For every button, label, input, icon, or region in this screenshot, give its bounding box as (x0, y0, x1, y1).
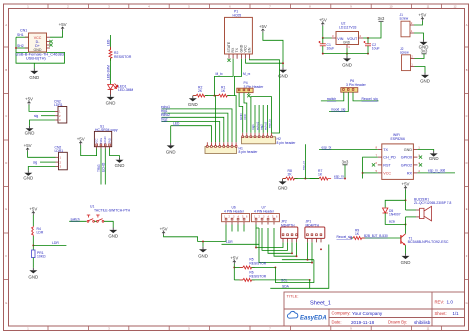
svg-text:+5V: +5V (25, 97, 33, 102)
svg-text:SH1: SH1 (17, 33, 24, 37)
svg-text:3 Pin Header: 3 Pin Header (346, 83, 367, 87)
wire TX riser bt_rx (234, 59, 241, 96)
svg-text:Drawn By:: Drawn By: (388, 320, 407, 325)
svg-text:GND: GND (404, 148, 413, 152)
resistor R2 (109, 47, 112, 61)
wire switch input (69, 220, 86, 222)
title block (284, 292, 465, 326)
svg-text:Your Company: Your Company (352, 311, 383, 316)
wire shield loop CN1 (16, 37, 65, 63)
svg-text:ZL-QCY12065-2305P 7.8: ZL-QCY12065-2305P 7.8 (414, 201, 451, 205)
connector CN2 body (58, 107, 67, 124)
junction node riser (304, 178, 306, 180)
wire +5V to J1 pin2 (414, 21, 422, 25)
resistor R1 1K (215, 94, 230, 97)
wire RX net (417, 172, 455, 174)
wire GND to R2 (193, 95, 196, 97)
svg-text:RST: RST (383, 163, 391, 167)
wire TX net (319, 149, 378, 151)
ground (CN2) (25, 126, 35, 136)
junction node rail left (322, 53, 324, 55)
pins CN2 (55, 111, 58, 120)
svg-text:HC05: HC05 (233, 13, 242, 17)
svg-text:GPIO0: GPIO0 (401, 156, 412, 160)
wire C1 branch (322, 38, 324, 44)
svg-text:Date:: Date: (332, 320, 342, 325)
wire LDR to U7 (222, 228, 260, 244)
svg-text:LED-3MM: LED-3MM (107, 65, 111, 80)
wire JP1 pin1 drop to SCL row (307, 242, 309, 259)
svg-text:MD4PTH: MD4PTH (306, 223, 320, 227)
svg-text:M_tx: M_tx (216, 72, 223, 76)
pins S1 below (97, 147, 110, 149)
transistor T1 BC548B (401, 234, 406, 246)
wire R9 left stub (351, 237, 353, 239)
wire GND tap CN1 (33, 63, 35, 68)
pin pads P4 (238, 89, 249, 91)
wire +5V to CN3 pin1 (28, 152, 56, 158)
svg-text:GND: GND (198, 253, 208, 258)
pin numbers J2 (411, 55, 413, 67)
wire +5V to R4 (32, 215, 34, 226)
regulator U2 body (336, 32, 359, 45)
svg-text:TRIG: TRIG (97, 164, 101, 172)
wire +5V loop to VCC P1 (246, 33, 283, 64)
svg-text:10KΩ: 10KΩ (37, 254, 46, 258)
svg-text:LDR: LDR (226, 240, 233, 244)
connector JP2 MD4PTH body (281, 227, 298, 238)
svg-text:trig2: trig2 (161, 117, 168, 121)
power flag +5V (CN1) (59, 22, 67, 31)
frame row ticks right (465, 47, 469, 280)
svg-text:BC548B-NPN-TO92-ESC: BC548B-NPN-TO92-ESC (408, 240, 449, 244)
svg-text:esp_rx_ddd: esp_rx_ddd (428, 169, 445, 173)
svg-text:2K: 2K (198, 89, 203, 93)
junction node SCL (274, 266, 276, 268)
pins U6 below (226, 222, 244, 225)
svg-text:HC-SR04 copy: HC-SR04 copy (95, 128, 118, 132)
svg-text:GND: GND (429, 156, 439, 161)
wire +5V rail to U6 (164, 225, 226, 242)
svg-text:LDR: LDR (37, 231, 44, 235)
wire sig CN3 pin2 (40, 161, 56, 163)
capacitor C1 (319, 41, 326, 46)
svg-text:RESISTOR: RESISTOR (114, 55, 132, 59)
svg-text:1N4007: 1N4007 (389, 213, 401, 217)
power flag +5V (CN2) (25, 97, 33, 106)
svg-text:esp_rx: esp_rx (302, 160, 306, 170)
ground (ESP8266) (429, 151, 439, 161)
ground (PR1) (28, 268, 38, 280)
svg-text:+5V: +5V (259, 24, 267, 29)
frame row ticks left (4, 47, 9, 280)
svg-text:3v3: 3v3 (421, 49, 428, 54)
svg-text:D: D (466, 161, 468, 165)
power flag +5V (buzzer) (402, 182, 410, 191)
svg-text:BZB: BZB (389, 220, 395, 224)
svg-text:LDR: LDR (52, 241, 59, 245)
pin nc mark STATE (227, 59, 230, 62)
svg-text:RESISTOR: RESISTOR (249, 274, 266, 278)
junction node weave d (320, 248, 322, 250)
junction node R2/R1 (214, 95, 216, 97)
svg-text:LDR1: LDR1 (54, 103, 63, 107)
pin pads H2 (242, 136, 273, 138)
power flag +5V (U2) (319, 18, 327, 27)
wire diode branch bottom (385, 213, 405, 224)
svg-text:shibilisb: shibilisb (414, 320, 431, 325)
svg-text:GND: GND (188, 102, 198, 107)
wire +5V to VIN (323, 26, 332, 38)
wire GND pin U2 (346, 48, 348, 56)
junction node VIN (322, 37, 324, 39)
ground (CN1) (29, 69, 39, 81)
svg-text:8 pin header: 8 pin header (277, 141, 297, 145)
wire SDA line (270, 280, 309, 288)
svg-text:EasyEDA: EasyEDA (300, 316, 327, 322)
wire P4 pin2 to H2 pin2 (244, 93, 247, 133)
svg-text:esp_rx: esp_rx (334, 174, 344, 178)
wire diode branch top (385, 200, 405, 207)
wire S1 ECHO down (104, 149, 106, 185)
svg-text:esp_tx: esp_tx (268, 119, 272, 128)
svg-text:screw: screw (400, 16, 409, 20)
svg-text:GND: GND (166, 149, 176, 154)
svg-text:2019-11-18: 2019-11-18 (351, 320, 375, 325)
svg-text:sig: sig (34, 114, 38, 118)
module ESP8266 body (382, 144, 414, 180)
wire buzzer pin top (406, 209, 417, 211)
wire H2 pin3 horizontal link (251, 97, 272, 133)
pins J1 (410, 25, 414, 33)
resistor R9 1K (350, 237, 365, 240)
wire P6 pin3 Reccel_sig (353, 92, 379, 101)
svg-text:GND: GND (107, 138, 111, 144)
wire +5V to VCC pin of CN1 (50, 31, 63, 38)
header H2 body (242, 137, 276, 144)
wire buzzer minus to collector segment (405, 217, 407, 234)
svg-text:3v3: 3v3 (342, 160, 349, 165)
wire S1 TRIG down (100, 149, 102, 185)
wire P4 pin1 to H2 pin1 (239, 93, 243, 133)
ground (R8) (278, 179, 288, 191)
wire trig2 (162, 122, 220, 143)
svg-text:GND: GND (420, 79, 430, 84)
ground (S1) (115, 157, 125, 168)
sensor S1 body (94, 131, 111, 146)
wire SH2 to box (16, 47, 29, 49)
ground (P1) (278, 67, 288, 78)
power flag +5V (I2C) (230, 256, 238, 265)
wire sig CN2 pin2 (41, 115, 55, 117)
wire SCL line (275, 260, 314, 283)
svg-text:LED-3MM: LED-3MM (118, 88, 133, 92)
svg-text:LED: LED (107, 39, 111, 46)
wire U6 pin2 dangle (231, 225, 233, 232)
LED LED1 (108, 84, 118, 90)
svg-text:Company:: Company: (332, 311, 351, 316)
svg-text:+5V: +5V (418, 13, 426, 18)
wire C1 to bottom rail (322, 46, 324, 54)
svg-text:E: E (466, 207, 468, 211)
wire base chain (362, 237, 401, 239)
ground (fan) (166, 143, 176, 154)
resistor PR1 (box style) (32, 250, 35, 258)
wire +5V to CN2 pin1 (29, 105, 55, 111)
power flag 3v3 (U2) (378, 16, 385, 21)
svg-text:GND: GND (343, 41, 351, 45)
svg-text:Reccel_sig: Reccel_sig (362, 97, 378, 101)
pins U7 below (256, 222, 274, 225)
svg-text:VCC: VCC (383, 171, 391, 175)
frame column ticks top (48, 4, 442, 9)
capacitor C2 (364, 41, 372, 46)
wire H2 pin6 riser (262, 105, 264, 133)
resistor R8 2K (282, 177, 297, 180)
wire LDR tap right (33, 244, 66, 246)
wire echo1 (162, 109, 232, 142)
pin numbers CN3 (60, 156, 62, 169)
pins J2 (411, 59, 415, 67)
junction node weave c (291, 252, 293, 254)
svg-text:C: C (466, 114, 468, 118)
junction node buzzer top (405, 199, 407, 201)
svg-text:CH_PD: CH_PD (383, 156, 396, 160)
wire GND drop (U6 rail) (202, 241, 204, 246)
pin numbers H1 (207, 144, 238, 147)
svg-text:B2B_BJT_B-530: B2B_BJT_B-530 (364, 234, 388, 238)
frame column ticks bottom (48, 326, 442, 331)
pins JP2 below (283, 238, 297, 242)
svg-text:esp_tx: esp_tx (322, 145, 332, 149)
junction node weave b (296, 255, 298, 257)
svg-text:1K: 1K (318, 173, 323, 177)
module P1 body (225, 17, 253, 54)
wire buzzer pin bottom (406, 216, 417, 218)
svg-text:+5V: +5V (160, 227, 168, 232)
resistor R4 LDR (32, 226, 34, 236)
svg-text:+5V: +5V (59, 22, 67, 27)
svg-text:E: E (5, 207, 7, 211)
svg-text:GND: GND (25, 131, 35, 136)
wire to R5 (234, 266, 243, 268)
ground (R2 row) (188, 96, 198, 107)
pin numbers U2 (332, 34, 362, 49)
svg-text:GND: GND (23, 175, 33, 180)
svg-text:screw: screw (400, 50, 409, 54)
power flag +5V (J1) (418, 13, 426, 22)
svg-text:ESP8266: ESP8266 (391, 137, 405, 141)
svg-text:+5V: +5V (319, 18, 327, 23)
svg-text:Reccel_sig: Reccel_sig (337, 235, 353, 239)
pin name columns S1 (95, 137, 112, 145)
svg-text:GND: GND (342, 63, 352, 68)
ground (LED1) (106, 95, 116, 106)
junction node LDR/U7p1 (255, 247, 257, 249)
svg-text:GPIO2: GPIO2 (401, 163, 412, 167)
terminal J2 body (402, 55, 411, 71)
wire echo2 (162, 117, 224, 142)
wire P6 pin1 switch (321, 92, 344, 101)
wire net to resistor R2 (110, 35, 112, 50)
svg-text:3v3: 3v3 (378, 16, 385, 21)
svg-text:LD1117V33: LD1117V33 (339, 25, 357, 29)
title block texts (287, 294, 460, 325)
svg-text:1.0: 1.0 (447, 300, 454, 305)
pin numbers ESP8266 (375, 146, 420, 173)
pin names ESP8266 right (401, 148, 413, 175)
power flag +5V (U6 rail) (160, 227, 168, 236)
pin nc mark RST (372, 163, 375, 166)
svg-text:C: C (5, 114, 7, 118)
pin numbers J1 (411, 21, 413, 33)
pin P4 pin3 stub (248, 93, 250, 95)
wire junction drop to H1 pin3 (215, 95, 216, 97)
svg-text:2K: 2K (288, 173, 293, 177)
wire R1 chain drop to H1 pin8 (234, 96, 236, 143)
svg-text:TX: TX (235, 47, 239, 52)
svg-text:mood_sig: mood_sig (331, 108, 345, 112)
wire JP2 pin2 to U7 pin2 (262, 228, 288, 250)
svg-text:4 PIN Header: 4 PIN Header (254, 209, 275, 213)
svg-text:1/1: 1/1 (453, 311, 460, 316)
svg-text:GND: GND (108, 234, 118, 239)
buzzer BUZZER1 speaker symbol (420, 206, 432, 221)
junction node VCC rail (282, 62, 284, 64)
wire LED to H1 (171, 126, 212, 143)
wire CH_PD (363, 157, 378, 178)
wire R5 to SCL riser (252, 266, 276, 268)
junction node U6 rail (202, 240, 204, 242)
svg-text:G: G (5, 301, 7, 305)
wire H2 pin7 riser (266, 105, 268, 133)
wire R2 to LED1 (110, 58, 112, 84)
pin nc mark GPIO2 (419, 163, 422, 166)
ground (U2) (342, 56, 352, 68)
connector CN3 body (59, 152, 68, 170)
wire S1 GND to ground (110, 149, 120, 158)
pins CN3 (56, 157, 59, 166)
wire GND to R8 (283, 178, 286, 180)
svg-text:CN1: CN1 (20, 29, 27, 33)
wire +5V down to junction (405, 190, 407, 210)
svg-text:TX: TX (383, 148, 388, 152)
svg-text:ECHO: ECHO (103, 137, 107, 145)
junction node 3v3/rail (344, 178, 346, 180)
svg-text:VCC: VCC (95, 138, 99, 144)
svg-text:SDA: SDA (282, 284, 290, 288)
pin pads JP2 (282, 234, 297, 236)
wire H2 pin5 riser (258, 105, 260, 133)
svg-text:10uF: 10uF (372, 47, 380, 51)
svg-text:4 PIN Header: 4 PIN Header (224, 209, 245, 213)
connector JP1 MD4PTH body (305, 227, 325, 238)
junction node rail right (367, 53, 369, 55)
power flag 3v3 (J2) (421, 49, 428, 54)
ground (U6 rail) (198, 247, 208, 258)
svg-text:GND: GND (115, 163, 125, 168)
wire riser up (net) (304, 144, 306, 178)
wire JP1 pin2 drop to LDR riser (259, 242, 312, 262)
wire emitter to ground (405, 245, 407, 253)
svg-text:1K: 1K (221, 89, 226, 93)
wire U6 pin3 dangle (237, 225, 239, 232)
svg-text:B: B (5, 68, 7, 72)
ground (J2) (420, 73, 430, 84)
svg-text:Sheet:: Sheet: (435, 311, 447, 316)
EasyEDA logo (287, 311, 326, 321)
junction node SDA (309, 279, 311, 281)
resistor R2 2K (193, 94, 208, 97)
pin nc mark GPIO0 (419, 156, 422, 159)
pin pads H1 (206, 146, 237, 148)
switch U1 symbol (87, 215, 104, 222)
svg-text:TITLE:: TITLE: (287, 294, 299, 299)
svg-text:SH2: SH2 (17, 44, 24, 48)
junction node VOUT/C2 (367, 37, 369, 39)
svg-text:switch: switch (71, 217, 80, 221)
wire C2 branch (367, 38, 369, 44)
ground (U1) (108, 228, 118, 239)
wire SDA line right (310, 245, 329, 289)
header P4 body (237, 88, 253, 92)
wire +5V drop to R5/R6 (233, 264, 235, 280)
wire 3v3 to J2 pin2 (415, 54, 425, 59)
wire R2 to R1 (205, 95, 219, 97)
pins JP1 below (308, 238, 322, 242)
svg-text:A: A (466, 23, 468, 27)
wire CN3 pin3 to ground (28, 167, 55, 171)
wire switch to ground (104, 221, 113, 227)
resistor R7 1K (316, 177, 331, 180)
svg-text:A: A (5, 23, 7, 27)
svg-text:MD4PTH: MD4PTH (281, 223, 295, 227)
power flag +5V (CN3) (24, 143, 32, 152)
svg-text:B: B (466, 68, 468, 72)
wire 3v3 drop (344, 165, 346, 179)
wire +5V to S1 pin1 (81, 145, 97, 156)
header H1 body (205, 147, 237, 154)
terminal J1 body (401, 21, 410, 37)
wire R1 right (227, 95, 234, 97)
svg-text:EN: EN (248, 47, 252, 52)
diode D5 1N4007 (383, 208, 388, 213)
power flag +5V (R4) (29, 207, 37, 216)
pins buzzer (416, 210, 420, 217)
wire R7 to 3v3 drop (328, 178, 363, 180)
ground (J1) (419, 40, 429, 50)
wire GND pin to ground (417, 150, 433, 152)
svg-text:GND: GND (29, 75, 39, 80)
wire VOUT to 3v3 (363, 22, 381, 38)
resistor R6 (240, 278, 255, 281)
wire C2 to bottom rail (367, 46, 369, 54)
wire H2 pin4 riser (254, 105, 256, 133)
pin pads S1 (96, 144, 111, 146)
svg-text:10uF: 10uF (327, 47, 335, 51)
wire LED1 to ground (110, 90, 112, 95)
svg-text:M_rx: M_rx (243, 72, 251, 76)
connector CN1 USB-B body (29, 33, 47, 52)
junction node weave a (311, 262, 313, 264)
pin numbers U6 (224, 216, 248, 219)
pin nc mark P4 (247, 94, 250, 97)
ground (CN3) (23, 170, 33, 180)
wire to R6 (234, 279, 243, 281)
wire J2 pin1 to ground (415, 67, 426, 73)
svg-text:sig: sig (33, 160, 37, 164)
svg-text:ECHO: ECHO (101, 162, 105, 172)
